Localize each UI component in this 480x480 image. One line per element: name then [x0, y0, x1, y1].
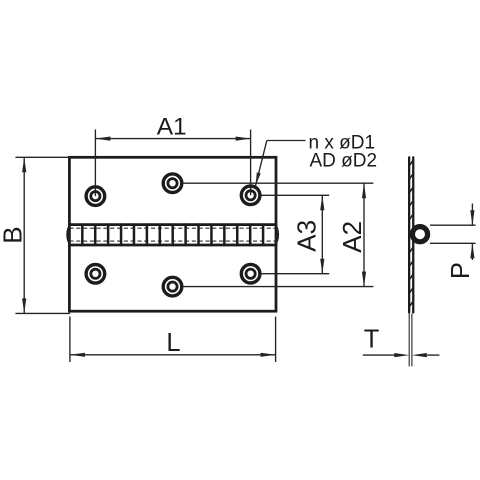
svg-text:L: L — [166, 329, 180, 357]
svg-text:A1: A1 — [157, 114, 187, 141]
svg-text:T: T — [364, 326, 380, 354]
svg-text:AD øD2: AD øD2 — [310, 151, 378, 172]
svg-text:P: P — [447, 262, 475, 279]
svg-text:A2: A2 — [337, 221, 367, 253]
svg-text:B: B — [0, 226, 27, 243]
svg-text:A3: A3 — [291, 220, 321, 252]
